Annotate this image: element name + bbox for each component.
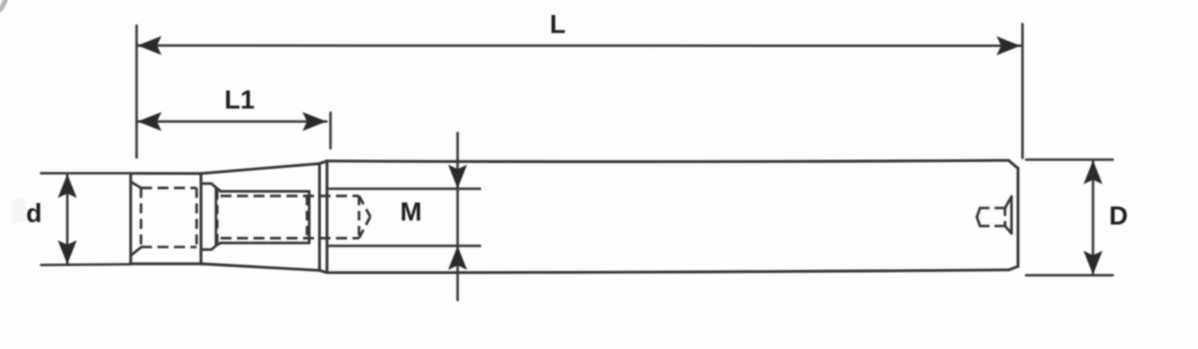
centre sink flare top bbox=[1005, 197, 1012, 208]
arrowhead L left bbox=[138, 36, 162, 55]
thread bore hidden top bbox=[221, 195, 360, 198]
dimension D extension line top bbox=[1026, 158, 1113, 161]
arrowhead L right bbox=[997, 36, 1021, 55]
dimension d extension line bottom bbox=[41, 263, 131, 266]
body end face bbox=[1017, 168, 1020, 266]
arrowhead D top bbox=[1084, 160, 1103, 184]
centre hole hidden bottom bbox=[980, 225, 1005, 228]
centre hole left cap bbox=[977, 208, 980, 226]
shank top edge bbox=[131, 172, 201, 175]
arrowhead d top bbox=[58, 174, 77, 198]
shank bore hidden bottom bbox=[141, 246, 197, 249]
body top edge bbox=[327, 160, 1009, 161]
shank bore chamfer bottom bbox=[131, 247, 141, 255]
dimension d extension line top bbox=[41, 172, 131, 175]
arrowhead d bottom bbox=[58, 240, 77, 264]
arrowhead D bottom bbox=[1084, 251, 1103, 275]
dimension line d bbox=[66, 175, 69, 264]
svg-text:L: L bbox=[550, 9, 566, 39]
dimension line L1 bbox=[138, 120, 327, 123]
shank bore hidden top bbox=[141, 187, 197, 190]
taper top line bbox=[201, 161, 327, 174]
thread bore hidden bottom bbox=[221, 237, 360, 240]
centre hole hidden top bbox=[980, 207, 1005, 210]
dimension D extension line bottom bbox=[1026, 274, 1113, 277]
collar outline bbox=[201, 184, 216, 250]
shank bore hidden left vertical bbox=[140, 188, 143, 247]
thread entry chamfer bottom bbox=[217, 243, 222, 245]
shank bottom edge bbox=[131, 262, 201, 265]
arrowhead L1 right bbox=[303, 112, 327, 131]
photo smudge top-left bbox=[0, 0, 6, 12]
drill point bottom hidden bbox=[359, 217, 370, 239]
body end chamfer bottom bbox=[1009, 266, 1018, 270]
body bottom edge bbox=[327, 270, 1009, 273]
svg-text:D: D bbox=[1109, 201, 1128, 231]
shank bore chamfer top bbox=[131, 182, 141, 188]
thread relief hidden vertical bbox=[216, 191, 219, 247]
dimension L extension line left bbox=[135, 26, 138, 158]
centre sink mouth line bbox=[1010, 197, 1013, 234]
body start vertical bbox=[326, 161, 329, 273]
drill point top hidden bbox=[359, 196, 370, 217]
arrowhead L1 left bbox=[138, 112, 162, 131]
thread bore solid outline bbox=[221, 191, 310, 243]
thread bore hidden vertical mid bbox=[306, 196, 309, 238]
dimension M extension line top bbox=[327, 187, 480, 190]
svg-text:d: d bbox=[26, 198, 42, 228]
dimension L extension line right bbox=[1021, 24, 1024, 158]
arrowhead M down bbox=[448, 165, 467, 189]
taper end vertical bbox=[318, 164, 321, 271]
shank end face line bbox=[200, 174, 203, 264]
taper bottom line bbox=[201, 264, 327, 273]
dimension line M bbox=[456, 133, 459, 300]
drill hole end vertical hidden bbox=[358, 196, 361, 238]
dimension line D bbox=[1092, 162, 1095, 274]
body end chamfer top bbox=[1009, 160, 1018, 168]
thread entry chamfer top bbox=[217, 188, 222, 191]
shank bore hidden right vertical bbox=[195, 188, 198, 247]
dimension M extension line bottom bbox=[327, 245, 480, 248]
arrowhead M up bbox=[448, 246, 467, 270]
centre hole hidden vertical bbox=[1004, 208, 1007, 226]
centre sink flare bottom bbox=[1005, 226, 1012, 233]
shank left edge bbox=[129, 173, 132, 263]
svg-text:L1: L1 bbox=[224, 85, 254, 115]
svg-text:M: M bbox=[400, 196, 422, 226]
photo smudge left faint bbox=[12, 199, 26, 223]
dimension L1 extension line right bbox=[329, 113, 332, 149]
dimension line L bbox=[138, 44, 1021, 47]
